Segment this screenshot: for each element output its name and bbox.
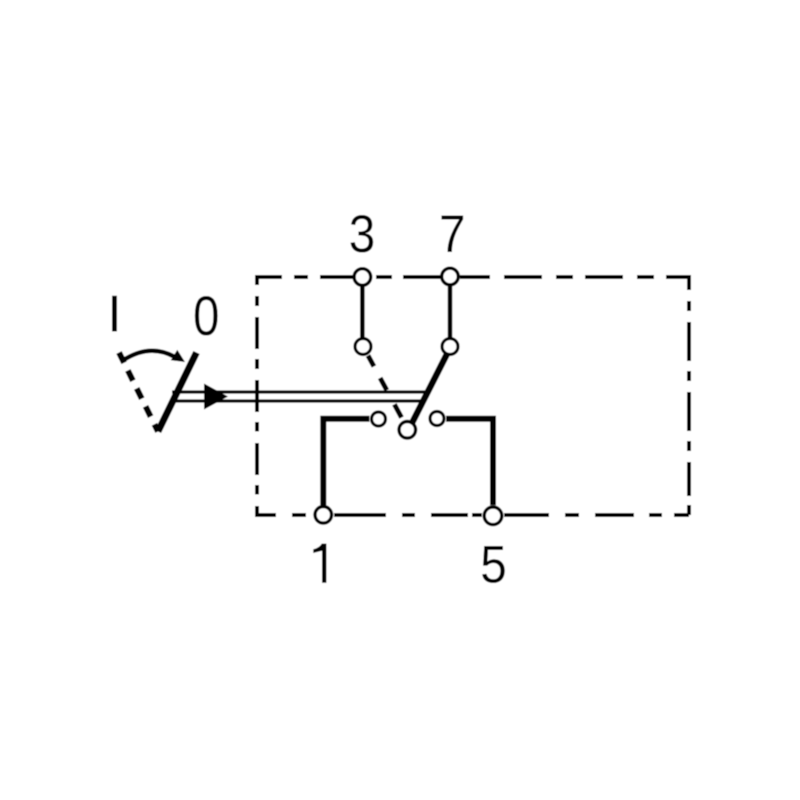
svg-text:5: 5 (480, 534, 507, 594)
svg-text:I: I (107, 286, 121, 344)
svg-text:3: 3 (349, 204, 376, 264)
svg-text:7: 7 (439, 204, 466, 264)
svg-text:0: 0 (193, 285, 219, 347)
